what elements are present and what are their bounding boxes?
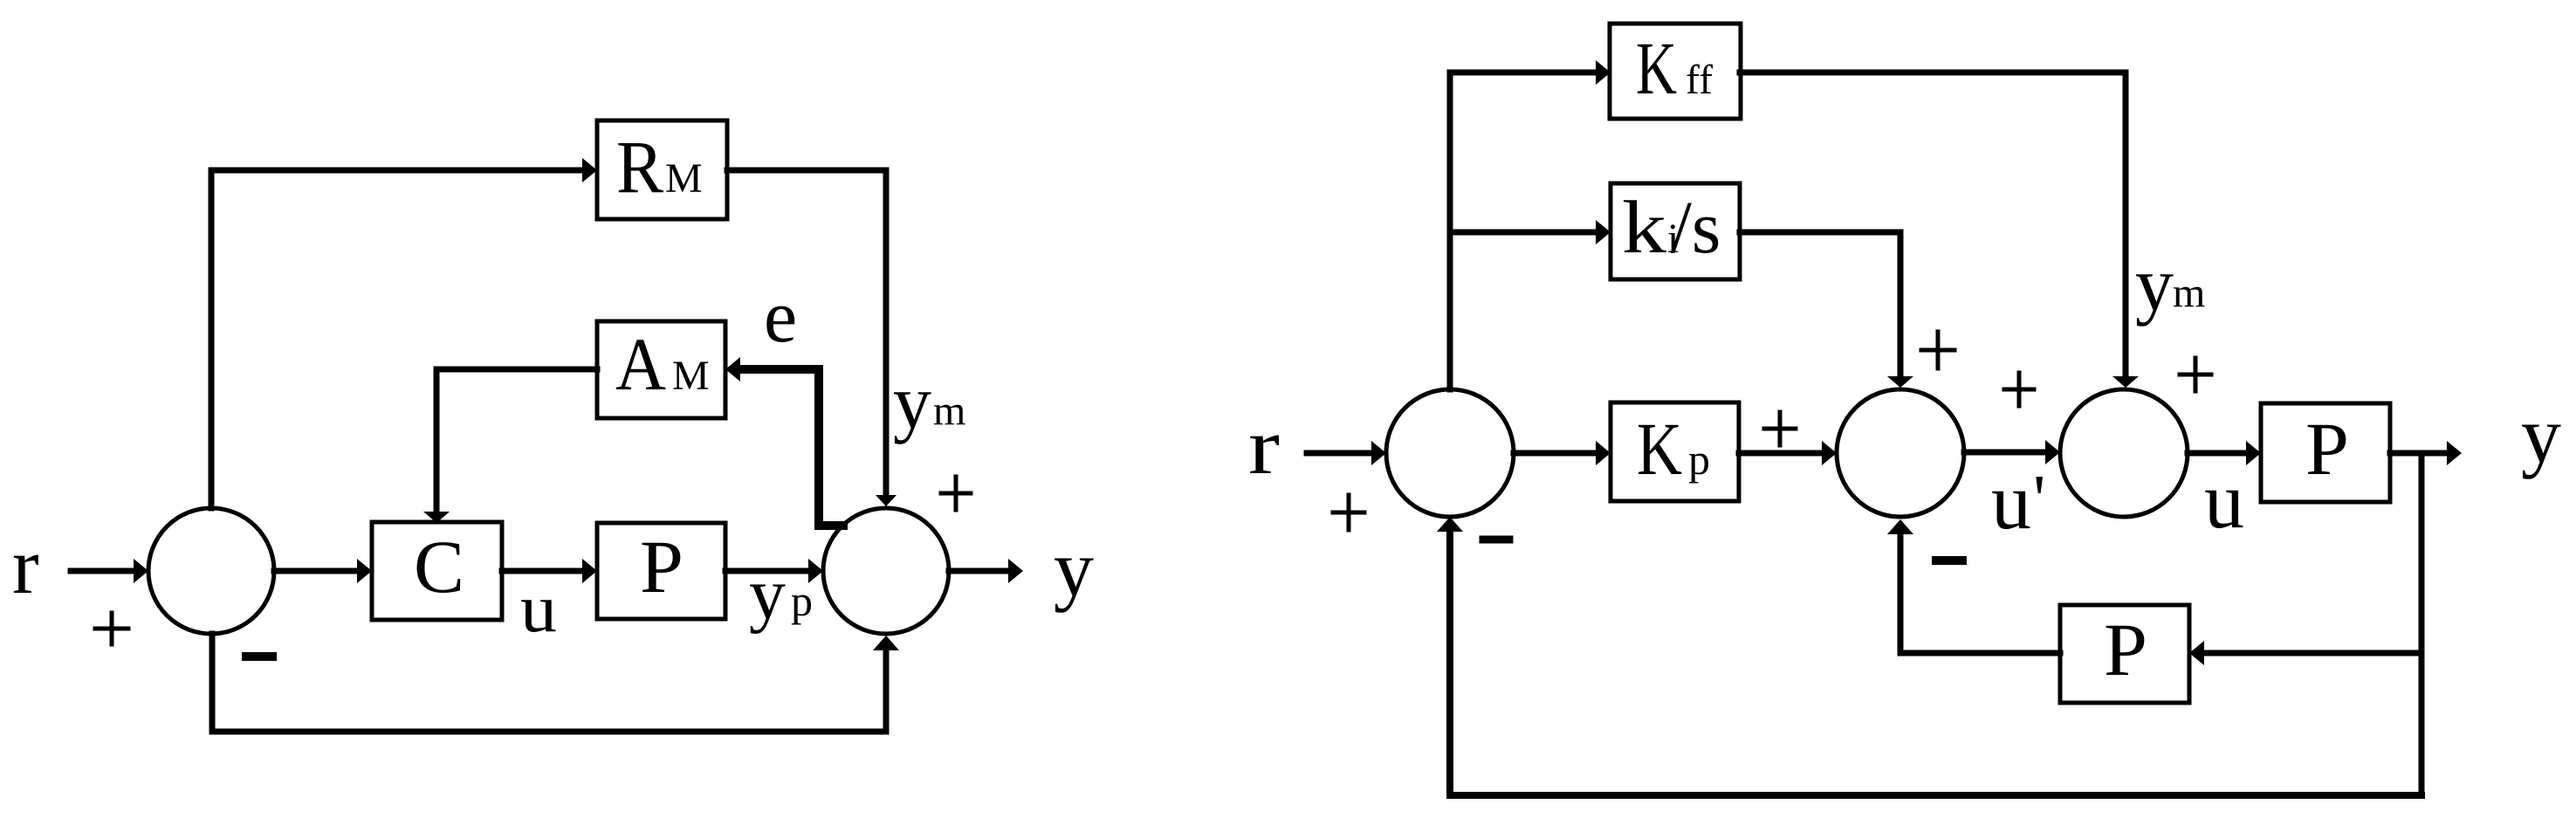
block P (plant, right diagram) <box>2261 403 2390 502</box>
svg-text:k: k <box>1622 185 1666 269</box>
svg-text:u: u <box>520 570 557 646</box>
svg-text:P: P <box>2305 407 2349 491</box>
wire P to output y with arrowhead <box>2390 441 2462 465</box>
svg-text:C: C <box>414 525 464 608</box>
summing junction S5 <box>2060 389 2188 517</box>
label e <box>764 274 797 358</box>
summing junction S4 <box>1837 389 1964 517</box>
wire S1 to C with arrowhead <box>274 559 372 583</box>
label plus at S2 top input <box>941 477 971 510</box>
label r (left input) <box>12 521 39 610</box>
wire ki/s output right and down to S4 with arrowhead <box>1740 232 1913 388</box>
block AM <box>597 321 725 418</box>
block Kp <box>1611 402 1739 501</box>
label plus at S4 top input <box>1921 332 1954 368</box>
svg-text:r: r <box>1248 402 1280 491</box>
wire C to P with arrowhead <box>502 559 597 583</box>
label ym (right diagram) <box>2135 243 2205 327</box>
label r (right input) <box>1248 402 1280 491</box>
wire RM output right and down to S2 with arrowhead <box>727 170 896 506</box>
svg-text:/s: /s <box>1671 185 1721 269</box>
svg-text:y: y <box>749 553 786 635</box>
block ki/s <box>1611 183 1740 279</box>
wire AM output left and down into C with arrowhead <box>423 369 597 523</box>
label minus at S4 bottom input <box>1936 556 1962 565</box>
svg-text:u: u <box>1991 457 2031 546</box>
wire branch to ki/s with arrowhead <box>1450 220 1611 244</box>
wire into bottom P with arrowhead <box>2189 641 2421 665</box>
svg-text:P: P <box>640 525 683 608</box>
wire output tap down to bottom feedback <box>2419 453 2425 795</box>
svg-text:M: M <box>665 155 703 202</box>
svg-text:y: y <box>2521 390 2561 479</box>
svg-text:K: K <box>1637 407 1682 491</box>
svg-text:R: R <box>616 125 664 209</box>
label yp <box>749 553 813 635</box>
svg-text:ff: ff <box>1686 57 1713 103</box>
label plus at S5 top input <box>2180 358 2211 391</box>
svg-text:m: m <box>2173 270 2205 316</box>
svg-text:m: m <box>933 388 965 434</box>
label plus after Kp <box>1764 412 1796 445</box>
wire S1 up and right to RM with arrowhead <box>211 158 597 508</box>
wire S2 to output y with arrowhead <box>949 559 1023 583</box>
wire r to S3 with arrowhead <box>1307 441 1386 465</box>
wire e from S2 up to AM with arrowhead (thick elbow) <box>725 357 843 526</box>
label u (right diagram) <box>2204 456 2244 545</box>
summing junction S2 <box>823 508 949 634</box>
label plus at S1 input <box>95 613 128 644</box>
label plus at S3 input <box>1333 495 1364 530</box>
svg-text:r: r <box>12 521 39 610</box>
wire r to S1 with arrowhead <box>71 559 148 583</box>
svg-text:P: P <box>2104 608 2147 691</box>
svg-text:u: u <box>2204 456 2244 545</box>
summing junction S1 <box>148 508 274 634</box>
svg-text:K: K <box>1636 26 1677 110</box>
label u (left diagram) <box>520 570 557 646</box>
svg-text:y: y <box>893 361 931 445</box>
wire Kff output right and down to S5 with arrowhead <box>1740 72 2139 388</box>
svg-text:p: p <box>791 576 813 625</box>
label ym (left diagram) <box>893 361 965 445</box>
wire S3 to Kp with arrowhead <box>1514 441 1611 465</box>
wire bottom feedback from S2 bottom to S1 bottom <box>212 634 899 732</box>
svg-text:y: y <box>2135 243 2174 327</box>
wire bottom P output left and up into S4 bottom with arrowhead <box>1887 519 2060 653</box>
label plus above S4-S5 wire <box>2004 373 2034 406</box>
block RM <box>597 120 727 219</box>
block Kff <box>1610 24 1741 119</box>
label y (left output) <box>1054 524 1094 613</box>
wire P to S2 with arrowhead <box>725 559 823 583</box>
label minus at S3 feedback <box>1483 536 1509 544</box>
svg-text:': ' <box>2033 462 2045 539</box>
label y (right output) <box>2521 390 2561 479</box>
svg-text:y: y <box>1054 524 1094 613</box>
wire S5 to P with arrowhead <box>2188 441 2261 465</box>
svg-text:e: e <box>764 274 797 358</box>
summing junction S3 <box>1386 389 1514 517</box>
block C <box>372 522 502 620</box>
label minus at S1 feedback <box>246 652 272 661</box>
svg-text:A: A <box>615 322 666 406</box>
svg-text:p: p <box>1688 435 1710 484</box>
svg-text:M: M <box>672 353 710 399</box>
label u prime <box>1991 457 2045 546</box>
block P (feedback model, bottom) <box>2060 605 2189 703</box>
wire Kp to S4 with arrowhead <box>1739 441 1837 465</box>
wire S4 to S5 with arrowhead <box>1964 440 2060 464</box>
wire long feedback along bottom and up into S3 bottom with arrowhead <box>1437 517 2421 795</box>
block P (left diagram) <box>597 523 725 619</box>
wire S3 up to Kff with arrowhead <box>1450 60 1611 389</box>
